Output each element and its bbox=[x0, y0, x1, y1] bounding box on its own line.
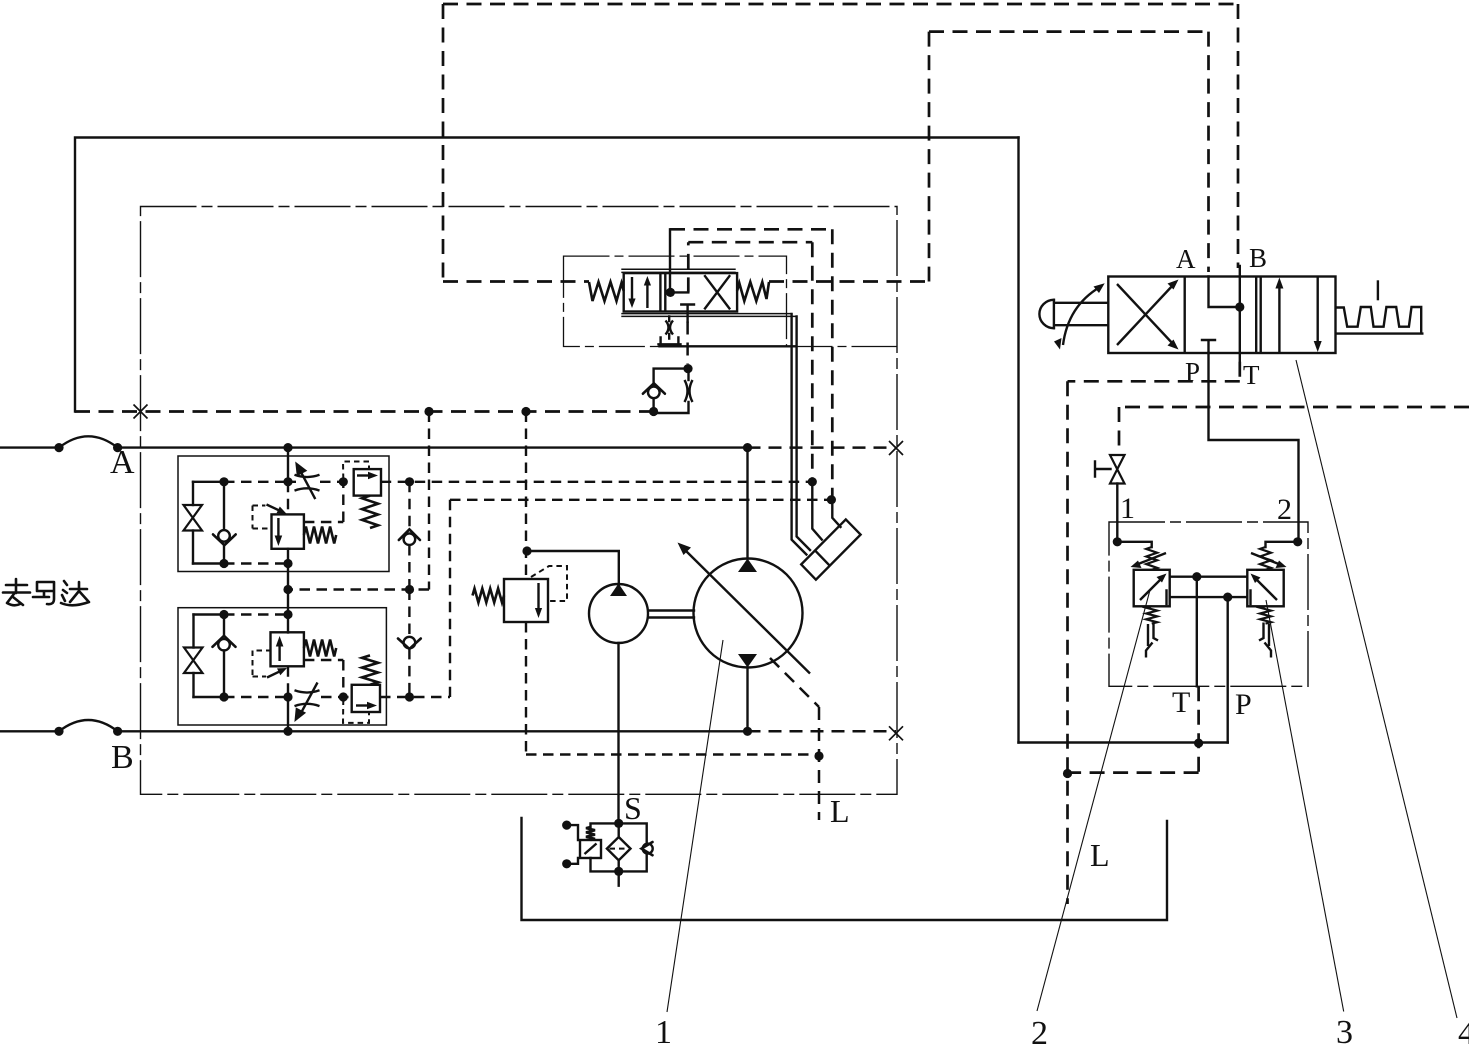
wire: remote pilot line A (inner dashed box) bbox=[929, 32, 1209, 282]
block2 check valve bbox=[213, 615, 236, 698]
block1 check valve bbox=[213, 482, 236, 564]
svg-text:1: 1 bbox=[655, 1014, 672, 1044]
pilot valve mounting rails (double lines) bbox=[621, 269, 796, 316]
gear pump P2 bbox=[589, 584, 648, 644]
servo piston rod (double line) bbox=[792, 314, 810, 555]
wire: V4 P port to block port 2 bbox=[1209, 353, 1299, 542]
wire: port B line bbox=[0, 720, 752, 736]
svg-text:P: P bbox=[1235, 688, 1252, 721]
pilot valve drain cup bbox=[659, 338, 796, 347]
block1 center column bbox=[287, 448, 289, 590]
test point X at block edge bbox=[134, 405, 148, 419]
block2 shut-off valve (bowtie) bbox=[184, 615, 203, 698]
wire: P supply right vertical bbox=[1017, 138, 1019, 743]
leader 4 (hand valve V4) bbox=[1296, 360, 1457, 1018]
svg-text:L: L bbox=[1090, 837, 1110, 873]
pump drive shaft (double line) bbox=[650, 611, 695, 618]
leader 1 (main pump) bbox=[667, 640, 723, 1012]
svg-text:B: B bbox=[111, 739, 134, 776]
wire: pilot rail (y=500 dashed) bbox=[450, 495, 836, 697]
pilot valve left position arrows bbox=[628, 276, 651, 308]
block2 RV2 pilot (dashed) bbox=[343, 700, 369, 723]
svg-text:S: S bbox=[624, 790, 642, 826]
svg-text:2: 2 bbox=[1277, 493, 1292, 526]
block2 R2 spring bbox=[304, 640, 336, 657]
block1 shut-off valve (bowtie) bbox=[184, 482, 203, 564]
wire: gear pump outlet bbox=[527, 551, 619, 585]
wire: servo feed from box1 bbox=[832, 500, 840, 527]
V4 handle knob and rod bbox=[1039, 300, 1108, 328]
wire: feedback line to box1 (solid up, dashed right/down) bbox=[670, 229, 832, 499]
V4 center position bbox=[1202, 266, 1244, 362]
block2 R2 output riser (dashed) bbox=[304, 660, 343, 697]
check valve column (block outlet) bbox=[399, 482, 420, 590]
block1 relief valve RV1 bbox=[354, 469, 381, 496]
V4 right position arrows bbox=[1275, 277, 1321, 353]
check valve column lower bbox=[398, 590, 421, 698]
leader 3 (reducing valve PR2) bbox=[1266, 600, 1344, 1012]
block1 pressure reducing valve R1 bbox=[272, 514, 304, 548]
pressure switch PS1 bbox=[580, 823, 619, 871]
svg-text:3: 3 bbox=[1336, 1014, 1353, 1044]
V4 detent bbox=[1336, 282, 1422, 334]
pilot valve right position X bbox=[704, 275, 730, 309]
main variable pump P1 bbox=[694, 559, 803, 668]
wire: port A dashed continuation bbox=[748, 441, 904, 455]
svg-text:A: A bbox=[1176, 244, 1196, 274]
PR2 spring and drain bbox=[1259, 606, 1271, 657]
throttle (fixed orifice) bbox=[654, 369, 693, 413]
wire: pilot branch x=429 bbox=[283, 412, 429, 595]
wire: V4 T port drain (dashed) bbox=[1063, 362, 1240, 904]
block1 RV1 pilot (dashed) bbox=[343, 462, 369, 480]
wire: block1 top rail / pilot rail (y=482) bbox=[193, 477, 817, 486]
shut-off valve (gauge isolator) bbox=[1095, 455, 1125, 542]
svg-text:T: T bbox=[1243, 360, 1260, 390]
wire: feedback line to box2 (dashed) bbox=[688, 242, 812, 482]
main relief valve RV3 bbox=[504, 579, 548, 622]
wire: gear pump suction to S bbox=[617, 643, 619, 823]
wire: swash-plate drain link (dashed diagonal) bbox=[770, 658, 824, 820]
wire: servo feed from box2 bbox=[812, 482, 822, 540]
svg-text:4: 4 bbox=[1458, 1015, 1469, 1044]
wire: block T line bbox=[1068, 577, 1204, 773]
control block 2 frame bbox=[178, 608, 386, 725]
block2 pressure reducing valve R2 bbox=[271, 632, 304, 666]
svg-text:L: L bbox=[830, 793, 850, 829]
block2 bottom rail bbox=[194, 692, 451, 701]
node: drain junction bbox=[683, 364, 692, 373]
block1 RV1 spring (below) bbox=[362, 496, 378, 528]
tank (reservoir) bbox=[522, 818, 1168, 920]
PR1 spring and drain bbox=[1146, 606, 1158, 657]
reducing valve PR2 bbox=[1247, 542, 1297, 607]
RV3 pilot loop (dashed right) bbox=[531, 566, 567, 601]
pressure switch terminals bbox=[562, 821, 578, 869]
right block internal rails bbox=[1167, 572, 1251, 604]
block2 variable throttle bbox=[294, 683, 319, 723]
suction filter F1 (diamond) bbox=[607, 823, 631, 885]
node S bbox=[614, 819, 623, 876]
block2 R2 pilot with arrow (dashed) bbox=[253, 651, 288, 678]
label: qu mada (to motor), drawn strokes bbox=[3, 579, 89, 605]
block1 variable throttle bbox=[295, 462, 320, 500]
pilot valve drain orifice bbox=[666, 316, 674, 338]
check valve CV1 (bypass) bbox=[643, 369, 688, 412]
wire: T return to pilot supply corner bbox=[1019, 741, 1228, 743]
wire: pilot pressure rail (y=412 dashed) bbox=[75, 410, 654, 413]
wire: port B dashed continuation bbox=[748, 726, 904, 740]
svg-text:A: A bbox=[110, 444, 135, 481]
pilot control valve U1 body bbox=[624, 273, 737, 311]
svg-text:T: T bbox=[1172, 686, 1190, 719]
RV3 spring (left) bbox=[473, 589, 505, 603]
pilot valve sub-enclosure (thin frame) bbox=[564, 256, 898, 346]
hand valve V4 body bbox=[1108, 277, 1335, 354]
pilot valve internal node and feedback hook bbox=[666, 288, 688, 297]
wire: pilot line to valve springs (y=282) bbox=[443, 280, 929, 283]
wire: gauge line (dashed from right edge) bbox=[1119, 407, 1469, 452]
wire: port A line bbox=[0, 436, 752, 452]
pilot pressure block frame bbox=[1109, 522, 1308, 686]
wire: pilot supply from P (top-left long line) bbox=[75, 138, 1019, 412]
filter bypass check valve bbox=[619, 823, 653, 871]
servo cylinder (tilted) bbox=[801, 519, 860, 579]
svg-text:1: 1 bbox=[1120, 492, 1135, 525]
main pump swash arrow bbox=[678, 543, 811, 674]
pilot valve right spring bbox=[737, 282, 769, 301]
block2 RV2 spring (above) bbox=[362, 655, 378, 684]
node: port1/port2 junctions bbox=[1113, 537, 1303, 546]
node: rail junctions bbox=[424, 407, 658, 416]
wire: pump to A bbox=[746, 448, 748, 559]
block2 relief valve RV2 bbox=[352, 685, 380, 712]
wire: pilot T drain (dashed) bbox=[686, 322, 689, 365]
svg-text:2: 2 bbox=[1031, 1015, 1048, 1044]
reducing valve PR1 bbox=[1117, 542, 1169, 607]
block1 bottom rail bbox=[193, 559, 293, 568]
V4 handle rotate arrow bbox=[1054, 283, 1105, 349]
block1 R1 spring bbox=[304, 527, 336, 544]
svg-text:B: B bbox=[1249, 243, 1267, 273]
wire: pump to B bbox=[746, 668, 748, 732]
pilot valve T-port bar (center) bbox=[681, 305, 694, 322]
block2 top rail bbox=[194, 610, 293, 619]
block1 R1 pilot with arrow (dashed) bbox=[253, 505, 287, 529]
block2 center column bbox=[287, 590, 289, 732]
pilot valve left spring bbox=[589, 282, 624, 301]
wire: pilot branch x=526 bbox=[522, 412, 819, 755]
wire: block P line bbox=[1226, 597, 1228, 742]
control block 1 frame bbox=[178, 456, 389, 572]
leader 2 (reducing valve PR1) bbox=[1037, 590, 1150, 1011]
block1 R1 output riser (dashed) bbox=[304, 482, 343, 522]
regulator block boundary (dash-dot frame) bbox=[141, 207, 898, 795]
wire: remote pilot line B (outer dashed box) bbox=[443, 4, 1238, 282]
V4 left position X arrows bbox=[1117, 280, 1179, 350]
